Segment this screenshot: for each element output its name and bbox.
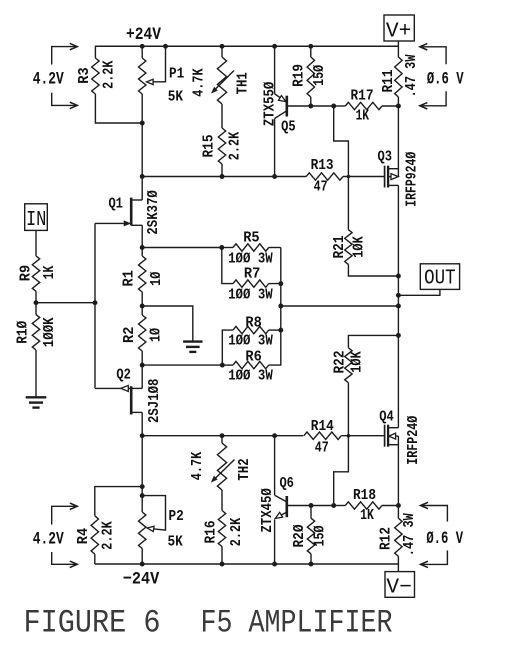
svg-text:R13: R13 (311, 157, 334, 174)
transistor Q2 2SJ108 (141, 365, 143, 388)
svg-text:2.2K: 2.2K (101, 60, 118, 88)
svg-text:R8: R8 (245, 315, 261, 332)
svg-text:R2: R2 (121, 327, 138, 343)
svg-text:1ØØ 3W: 1ØØ 3W (228, 333, 273, 350)
ground symbol input (26, 396, 47, 398)
svg-text:R14: R14 (311, 418, 334, 435)
wire row2 (142, 435, 303, 437)
svg-text:2.2K: 2.2K (228, 518, 245, 546)
svg-text:FIGURE 6: FIGURE 6 (24, 605, 161, 642)
svg-text:4.7K: 4.7K (189, 452, 206, 480)
MOSFET Q3 IRFP9240 (384, 166, 386, 188)
resistor R22 (345, 348, 352, 383)
svg-text:R9: R9 (18, 265, 35, 281)
resistor R11 (397, 46, 399, 57)
svg-text:ZTX45Ø: ZTX45Ø (259, 488, 276, 532)
resistor R5 (233, 244, 269, 251)
rail junction dots bottom (140, 562, 145, 567)
ground symbol mid (183, 340, 202, 342)
svg-text:1ØK: 1ØK (350, 236, 367, 258)
transistor Q6 ZTX450 (274, 436, 276, 496)
svg-text:R1: R1 (121, 270, 138, 286)
-24V rail (95, 563, 399, 565)
svg-text:.47 3W: .47 3W (401, 513, 418, 556)
resistor R13 (306, 173, 343, 180)
potentiometer P1 (141, 46, 143, 58)
svg-text:4.2V: 4.2V (33, 69, 64, 89)
wire left column P1 to row1 (141, 123, 143, 177)
svg-text:R2Ø: R2Ø (291, 525, 308, 548)
svg-text:Q1: Q1 (108, 196, 123, 213)
svg-text:2SJ1Ø8: 2SJ1Ø8 (146, 379, 163, 423)
svg-text:Ø.6 V: Ø.6 V (427, 69, 464, 89)
resistor R8 (222, 330, 233, 365)
wire input junction row (36, 302, 95, 304)
svg-text:Q5: Q5 (281, 119, 296, 136)
svg-text:R1Ø: R1Ø (14, 321, 31, 344)
wire R1 R2 junction to ground (142, 306, 193, 342)
svg-text:4.2V: 4.2V (33, 530, 64, 550)
svg-text:2SK37Ø: 2SK37Ø (145, 190, 162, 234)
svg-text:4.7K: 4.7K (190, 68, 207, 96)
svg-text:P2: P2 (168, 508, 183, 525)
wire V- stub (397, 564, 399, 572)
MOSFET Q4 IRFP240 (384, 425, 386, 447)
svg-text:R12: R12 (378, 527, 395, 550)
resistor R12 (397, 506, 399, 519)
wire row1 (142, 176, 306, 178)
wire R17 row (287, 105, 334, 107)
0.6V measurement arrows bottom (421, 506, 448, 565)
svg-text:−24V: −24V (123, 569, 160, 589)
V+ terminal box (384, 15, 414, 41)
transistor Q1 2SK370 (141, 177, 143, 201)
P1 wiper (153, 46, 166, 82)
svg-text:TH2: TH2 (236, 458, 253, 480)
svg-text:1K: 1K (41, 266, 58, 280)
IN terminal box (25, 204, 48, 231)
OUT terminal box (420, 264, 459, 290)
svg-text:R17: R17 (351, 88, 374, 105)
svg-text:1K: 1K (355, 108, 369, 125)
svg-text:1K: 1K (360, 507, 374, 524)
resistor R14 (304, 432, 341, 439)
svg-text:R3: R3 (76, 67, 93, 83)
svg-text:IRFP24Ø: IRFP24Ø (405, 416, 422, 465)
svg-text:47: 47 (314, 179, 328, 196)
resistor R20 (310, 506, 312, 519)
wire bias jog bottom (334, 436, 349, 506)
svg-text:Ø.6 V: Ø.6 V (426, 529, 463, 549)
resistor R1 (141, 248, 143, 257)
svg-text:R19: R19 (291, 64, 308, 87)
svg-text:F5 AMPLIFIER: F5 AMPLIFIER (201, 605, 393, 642)
svg-text:1ØØ 3W: 1ØØ 3W (228, 286, 273, 303)
wire V+ stub (397, 41, 399, 46)
resistor R7 (222, 248, 233, 284)
resistor R9 (35, 230, 37, 256)
svg-text:V−: V− (386, 577, 412, 600)
svg-text:47: 47 (315, 440, 329, 457)
svg-text:Q3: Q3 (378, 149, 393, 166)
svg-text:R4: R4 (75, 528, 92, 544)
TH1 arrow (214, 71, 235, 92)
svg-text:2.2K: 2.2K (226, 132, 243, 160)
potentiometer P2 (141, 436, 143, 512)
wire output row (281, 305, 399, 307)
svg-text:R7: R7 (244, 266, 260, 283)
wire Q2 source row (142, 364, 222, 366)
wire OUT stub (398, 289, 440, 295)
resistor R10 (35, 303, 37, 315)
V- terminal box (385, 572, 415, 598)
thermistor TH2 (221, 436, 223, 443)
resistor R19 (310, 46, 312, 57)
svg-text:R15: R15 (200, 135, 217, 158)
svg-text:5K: 5K (167, 534, 182, 551)
svg-text:ZTX55Ø: ZTX55Ø (262, 82, 279, 126)
svg-text:OUT: OUT (424, 268, 456, 291)
resistor R6 (222, 364, 233, 366)
4.2V measurement arrows top (52, 47, 78, 106)
svg-text:R16: R16 (202, 521, 219, 544)
+24V rail (95, 45, 398, 47)
svg-text:+24V: +24V (126, 25, 161, 45)
wire parallel group to out node (280, 284, 282, 306)
svg-text:R21: R21 (331, 236, 348, 259)
svg-text:1Ø: 1Ø (148, 328, 165, 342)
svg-text:TH1: TH1 (235, 72, 252, 94)
svg-text:V+: V+ (386, 20, 412, 43)
svg-text:2.2K: 2.2K (99, 521, 116, 549)
4.2V measurement arrows bottom (52, 506, 78, 564)
svg-text:Q4: Q4 (379, 408, 394, 425)
resistor R4 (94, 554, 96, 564)
svg-text:R11: R11 (380, 70, 397, 93)
svg-text:IRFP924Ø: IRFP924Ø (404, 152, 421, 207)
svg-text:5K: 5K (168, 89, 183, 106)
svg-text:R18: R18 (353, 487, 376, 504)
svg-text:IN: IN (26, 209, 47, 232)
svg-text:P1: P1 (169, 66, 184, 83)
svg-text:1ØK: 1ØK (348, 351, 365, 373)
0.6V measurement arrows top (420, 47, 446, 106)
wire Q1 source row (142, 247, 222, 249)
svg-text:1Ø: 1Ø (148, 272, 165, 286)
wire bias jog top (334, 106, 349, 177)
resistor R17 (334, 105, 346, 107)
svg-text:15Ø: 15Ø (311, 65, 328, 86)
wire R18 row (287, 505, 334, 507)
svg-text:1ØØ 3W: 1ØØ 3W (228, 368, 273, 385)
wire R8 top vertical (280, 306, 282, 330)
svg-text:R5: R5 (243, 230, 259, 247)
svg-text:.47 3W: .47 3W (403, 55, 420, 98)
resistor R16 (218, 511, 225, 547)
resistor R18 (334, 505, 346, 507)
wire gate line (94, 223, 96, 388)
rail junction dots top (220, 44, 225, 49)
svg-text:Q2: Q2 (116, 367, 131, 384)
svg-text:15Ø: 15Ø (312, 526, 329, 547)
svg-text:Q6: Q6 (279, 475, 294, 492)
svg-text:R22: R22 (332, 351, 349, 374)
TH2 arrow (213, 460, 234, 481)
transistor Q5 ZTX550 (274, 46, 276, 94)
svg-text:R6: R6 (245, 349, 261, 366)
resistor R2 (141, 306, 143, 315)
resistor R15 (218, 128, 225, 164)
wire R22 link (348, 335, 398, 347)
thermistor TH1 (221, 46, 223, 57)
P2 wiper (142, 496, 165, 530)
resistor R21 (347, 177, 349, 230)
resistor R3 (95, 46, 142, 58)
svg-text:1ØØK: 1ØØK (41, 317, 58, 347)
